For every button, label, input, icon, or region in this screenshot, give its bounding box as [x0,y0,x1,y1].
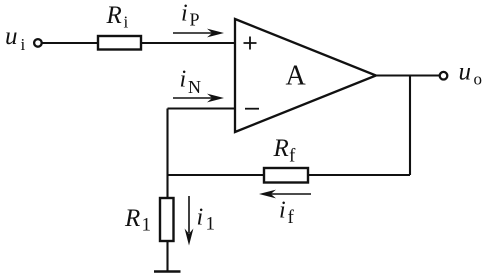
resistor R_f [264,168,308,183]
wire output [376,74,439,76]
svg-text:R: R [124,205,140,232]
svg-text:A: A [286,61,307,92]
svg-text:i: i [180,67,187,93]
svg-text:i: i [124,13,129,32]
svg-text:o: o [474,70,483,89]
svg-text:i: i [197,205,204,231]
op-amp U triangle [235,19,376,132]
ground [154,270,181,273]
svg-text:i: i [181,1,188,27]
svg-text:1: 1 [142,215,152,236]
arrow i_N [173,94,224,103]
svg-text:u: u [5,23,18,50]
svg-text:i: i [21,35,26,54]
arrow i_P [173,29,224,38]
svg-text:u: u [459,59,472,86]
svg-text:1: 1 [206,214,216,235]
arrow i_f [259,190,311,199]
svg-text:R: R [273,135,289,162]
svg-text:P: P [190,10,200,30]
terminal u_o [440,72,448,80]
wire feedback right [308,174,410,176]
wire left vertical [166,109,168,199]
resistor R_1 [160,198,174,241]
op-amp plus sign [244,37,257,50]
svg-text:f: f [288,207,295,228]
wire input right [141,42,235,44]
svg-text:f: f [289,146,296,167]
svg-text:i: i [279,198,286,224]
wire below R_1 [166,241,168,272]
svg-text:R: R [106,2,122,29]
svg-text:N: N [188,77,201,97]
wire input left [43,42,99,44]
arrow i_1 [185,196,194,246]
terminal u_i [34,39,42,47]
wire inverting input [168,107,236,109]
wire right vertical [409,76,411,176]
op-amp minus sign [245,108,259,110]
wire feedback left [168,174,265,176]
resistor R_i [98,36,141,50]
